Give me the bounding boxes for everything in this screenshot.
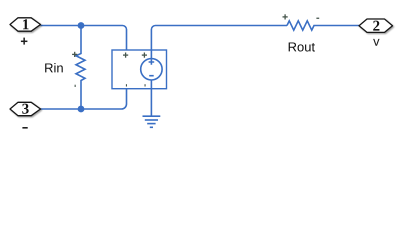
wire: source bottom to ground bbox=[150, 80, 152, 116]
label - under port 3 bbox=[22, 127, 27, 129]
minus tick block input (bottom-left port) bbox=[126, 84, 127, 86]
controlled voltage source circle bbox=[141, 59, 162, 80]
plus mark block output (top-right port) bbox=[142, 53, 147, 58]
VCVS block rectangle U1 bbox=[112, 50, 167, 89]
plus mark Rout bbox=[283, 14, 288, 19]
wire: port1 to block top-left input bbox=[41, 26, 127, 51]
label v under port 2 bbox=[373, 39, 379, 46]
resistor Rin (vertical, with zigzag) bbox=[76, 26, 85, 110]
wire: source top through block to Rout bbox=[151, 26, 287, 60]
minus tick Rin bbox=[75, 85, 76, 87]
wire: port3 to block bottom-left input bbox=[41, 89, 127, 109]
ground symbol bbox=[143, 116, 161, 127]
junction node at Rin top bbox=[78, 22, 85, 29]
label + under port 1 bbox=[21, 38, 28, 45]
plus mark Rin bbox=[72, 52, 77, 57]
minus inside source circle bbox=[149, 75, 154, 77]
port 3 (hexagon) bbox=[10, 102, 41, 115]
plus mark block input (top-left port) bbox=[123, 53, 128, 58]
port 2 (hexagon) bbox=[359, 19, 393, 32]
label Rin bbox=[45, 63, 63, 72]
junction node at Rin bottom bbox=[78, 106, 85, 113]
minus tick block output (bottom-right port) bbox=[145, 84, 146, 86]
resistor Rout (horizontal zigzag) bbox=[287, 21, 359, 30]
port 1 (hexagon) bbox=[10, 18, 41, 31]
label Rout bbox=[289, 42, 315, 51]
plus inside source circle bbox=[149, 59, 155, 65]
minus mark Rout bbox=[316, 18, 319, 19]
